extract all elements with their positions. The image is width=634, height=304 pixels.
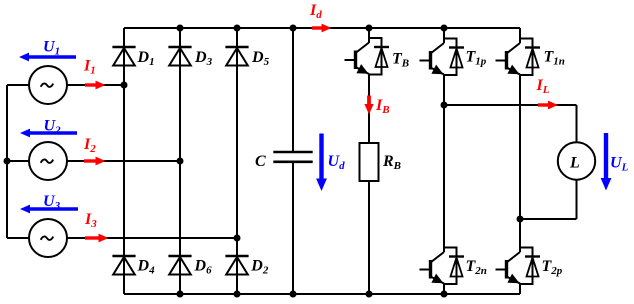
wire: neutral vertical: [6, 85, 8, 238]
wire: right leg top: [519, 28, 521, 43]
wire: right leg bottom: [519, 284, 521, 294]
arrow IL: [538, 101, 558, 110]
svg-text:D6: D6: [194, 258, 213, 277]
node: top bus / T1p: [441, 25, 448, 32]
svg-text:Id: Id: [309, 2, 322, 21]
node: bottom bus / T2n: [441, 291, 448, 298]
svg-text:D5: D5: [251, 49, 270, 68]
svg-text:T1p: T1p: [466, 49, 487, 68]
AC source G1: [29, 66, 67, 104]
wire: brake branch lower: [368, 181, 370, 294]
wire: right leg middle: [519, 75, 521, 252]
AC source G3: [29, 219, 67, 257]
diode D2: [225, 256, 248, 275]
svg-text:I2: I2: [83, 136, 96, 155]
svg-text:U2: U2: [44, 118, 62, 137]
wire: top DC bus: [124, 27, 520, 29]
arrow Ud: [316, 134, 327, 192]
transistor TB: [345, 38, 390, 75]
wire: load wire down: [576, 105, 578, 143]
node: top bus / C: [290, 25, 297, 32]
wire: left leg top: [443, 28, 445, 43]
wire: brake branch middle: [368, 75, 370, 144]
arrow UL: [601, 133, 612, 191]
AC source G2: [29, 142, 67, 180]
diode D1: [112, 47, 135, 66]
svg-text:D4: D4: [137, 258, 156, 277]
svg-text:U1: U1: [43, 39, 60, 58]
transistor T1n: [496, 39, 541, 76]
wire: phase 3 right segment: [67, 237, 237, 239]
wire: left leg middle: [443, 75, 445, 252]
node: bottom bus / C: [290, 291, 297, 298]
wire: phase 3 left segment: [7, 237, 29, 239]
wire: bottom DC bus: [124, 293, 520, 295]
wire: capacitor branch lower: [292, 162, 294, 294]
node: phase 2 / D3 branch: [177, 158, 184, 165]
node: top bus / D5: [234, 25, 241, 32]
node: top bus / TB: [366, 25, 373, 32]
svg-text:I3: I3: [84, 211, 97, 230]
node: bottom bus / RB: [366, 291, 373, 298]
arrow I1: [85, 81, 106, 90]
svg-text:U3: U3: [43, 193, 61, 212]
node: left leg mid: [441, 102, 448, 109]
capacitor C: [273, 152, 312, 162]
arrow U1: [19, 53, 76, 62]
wire: capacitor branch upper: [292, 28, 294, 152]
wire: phase 1 right segment: [67, 84, 124, 86]
wire: phase 1 left segment: [7, 84, 29, 86]
wire: phase 2 left segment: [7, 160, 29, 162]
svg-text:L: L: [569, 155, 580, 172]
svg-text:I1: I1: [83, 58, 96, 77]
diode D6: [168, 256, 191, 275]
svg-text:D2: D2: [250, 258, 269, 277]
svg-text:IL: IL: [536, 77, 550, 96]
wire: load wire horizontal: [444, 104, 577, 106]
svg-text:T1n: T1n: [544, 49, 565, 68]
arrow U3: [20, 205, 78, 214]
svg-text:IB: IB: [375, 97, 390, 116]
svg-text:D1: D1: [137, 49, 155, 68]
wire: left leg bottom: [443, 284, 445, 294]
wire: phase 2 right segment: [67, 160, 180, 162]
arrow Id: [312, 24, 332, 33]
svg-text:RB: RB: [382, 153, 401, 172]
svg-text:UL: UL: [610, 155, 629, 174]
arrow IB: [364, 96, 373, 115]
svg-text:C: C: [255, 153, 266, 170]
wire: branch D5/D2: [236, 28, 238, 294]
node: bottom bus / D6: [177, 291, 184, 298]
transistor T2p: [496, 248, 541, 285]
arrow U2: [20, 129, 77, 138]
diode D5: [225, 47, 248, 66]
inductive load L: [558, 142, 595, 179]
wire: branch D1/D4: [123, 28, 125, 294]
transistor T1p: [420, 39, 465, 76]
svg-text:Ud: Ud: [328, 153, 346, 172]
resistor RB: [360, 143, 379, 181]
arrow I3: [85, 234, 109, 243]
wire: brake branch top: [368, 28, 370, 43]
diode D4: [112, 256, 135, 275]
svg-text:TB: TB: [392, 51, 409, 70]
node: bottom bus / D2: [234, 291, 241, 298]
wire: branch D3/D6: [179, 28, 181, 294]
node: neutral mid: [4, 158, 11, 165]
arrow I2: [84, 157, 106, 166]
node: phase 1 / D1 branch: [121, 82, 128, 89]
svg-text:T2n: T2n: [466, 258, 487, 277]
svg-text:T2p: T2p: [542, 258, 563, 277]
node: top bus / D3: [177, 25, 184, 32]
transistor T2n: [420, 248, 465, 285]
node: right leg / load return: [517, 216, 524, 223]
wire: load wire below: [576, 180, 578, 219]
diode D3: [168, 47, 191, 66]
wire: load return: [520, 218, 577, 220]
svg-text:D3: D3: [194, 49, 213, 68]
node: phase 3 / D5 branch: [234, 235, 241, 242]
